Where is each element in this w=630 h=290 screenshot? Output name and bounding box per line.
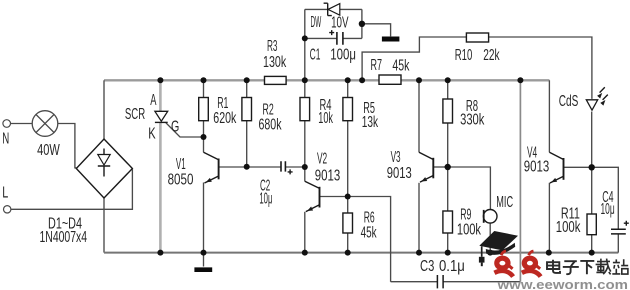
svg-text:R7: R7 xyxy=(371,57,383,74)
transistor V2 xyxy=(305,181,320,211)
wire R2 column xyxy=(246,80,248,167)
svg-text:620k: 620k xyxy=(213,110,236,127)
node top bus / R5 top xyxy=(345,77,351,83)
logo text dian xyxy=(547,260,560,273)
transistor V3 xyxy=(419,152,433,182)
lamp 40W xyxy=(32,111,58,137)
svg-text:40W: 40W xyxy=(37,142,60,159)
wire C3 rail riser to top bus xyxy=(519,80,521,281)
node top bus / V3 collector xyxy=(416,77,422,83)
svg-text:8050: 8050 xyxy=(168,171,194,188)
wire C4 bottom xyxy=(617,234,619,253)
wire C3 rail xyxy=(391,281,521,283)
svg-text:130k: 130k xyxy=(263,54,286,71)
wire R8 column xyxy=(447,80,449,167)
wire R10 to CdS xyxy=(489,37,592,99)
wire V3 collector column xyxy=(418,80,420,152)
wire SCR gate xyxy=(166,123,204,137)
wire SCR anode xyxy=(159,80,162,111)
node bottom bus / V1 emitter xyxy=(201,250,207,256)
wire node to C4 xyxy=(592,167,619,229)
node top bus / R1 top xyxy=(201,77,207,83)
node top bus / R4 top xyxy=(302,77,308,83)
transistor V1 xyxy=(204,152,219,183)
capacitor C4 xyxy=(611,221,629,234)
node top bus / SCR anode xyxy=(157,77,163,83)
node C1 left rail junction xyxy=(302,35,308,41)
logo chong glyph 2 xyxy=(522,251,541,277)
node bottom bus / R11 bottom xyxy=(589,250,595,256)
svg-text:13k: 13k xyxy=(362,114,378,131)
wire N terminal to lamp xyxy=(10,123,32,125)
photoresistor CdS xyxy=(586,87,608,110)
resistor R8 xyxy=(443,99,453,123)
node SCR gate / R1 bottom / V1 collector xyxy=(201,134,207,140)
svg-text:0.1μ: 0.1μ xyxy=(439,258,465,275)
svg-text:DW: DW xyxy=(311,14,322,31)
svg-text:N: N xyxy=(2,131,9,148)
node bottom bus / SCR cathode xyxy=(157,250,163,256)
node V2 base / R5 R6 xyxy=(345,194,351,200)
resistor R4 xyxy=(300,98,310,121)
wire lamp to bridge left corner xyxy=(58,124,77,168)
svg-text:R3: R3 xyxy=(267,38,278,55)
svg-text:1N4007x4: 1N4007x4 xyxy=(40,229,88,246)
node bottom bus / R9 bottom xyxy=(445,250,451,256)
svg-text:A: A xyxy=(150,92,157,109)
wire ground tap from C1 rail xyxy=(362,24,391,37)
node V1 base / R2 bottom xyxy=(244,164,250,170)
wire R11 column xyxy=(591,167,593,252)
svg-text:10μ: 10μ xyxy=(259,191,272,208)
logo graduation cap xyxy=(479,231,518,266)
node bottom bus / MIC bottom xyxy=(487,250,493,256)
svg-text:V2: V2 xyxy=(317,151,327,168)
wire bottom ground bus xyxy=(104,252,618,254)
wire node to MIC xyxy=(448,167,491,210)
wire R4 column xyxy=(304,80,306,167)
svg-text:G: G xyxy=(171,118,179,135)
logo chong glyph 1 xyxy=(494,251,513,277)
svg-text:45k: 45k xyxy=(392,57,409,74)
svg-text:10V: 10V xyxy=(331,15,349,32)
wire R9 column xyxy=(447,167,449,253)
svg-text:MIC: MIC xyxy=(496,194,513,211)
resistor R6 xyxy=(343,213,353,233)
wire R6 column xyxy=(347,197,349,253)
capacitor C2 xyxy=(281,161,293,174)
svg-text:22k: 22k xyxy=(483,47,499,64)
svg-text:9013: 9013 xyxy=(524,159,550,176)
svg-text:K: K xyxy=(148,126,156,143)
svg-text:www.eeworm.com: www.eeworm.com xyxy=(496,277,628,290)
terminal L xyxy=(3,206,10,213)
wire SCR cathode column xyxy=(159,123,162,253)
wire bridge bottom column xyxy=(103,198,105,253)
wire V3 emitter column xyxy=(418,183,420,253)
wire top supply bus xyxy=(104,79,549,81)
capacitor C3 xyxy=(437,275,443,288)
wire V1 emitter column xyxy=(203,183,205,253)
capacitor C1 xyxy=(329,30,343,45)
wire bridge top column xyxy=(103,80,105,139)
svg-text:330k: 330k xyxy=(460,111,484,128)
transistor V4 xyxy=(549,152,563,183)
ground near C1 xyxy=(382,37,400,42)
svg-text:CdS: CdS xyxy=(559,93,579,110)
node top bus / R10 branch xyxy=(359,77,365,83)
svg-text:9013: 9013 xyxy=(315,168,341,185)
node top bus / C3 riser top xyxy=(517,77,523,83)
zener DW xyxy=(324,3,340,15)
logo text zi xyxy=(563,261,579,274)
resistor R9 xyxy=(443,211,453,233)
wire staircase bus to R10 xyxy=(362,37,466,80)
wire C1 left rail xyxy=(304,38,306,80)
svg-text:C1: C1 xyxy=(310,46,321,63)
svg-text:45k: 45k xyxy=(361,224,377,241)
logo text xia xyxy=(580,261,594,274)
node V3 base / R8 R9 MIC xyxy=(445,164,451,170)
svg-text:L: L xyxy=(2,184,8,201)
logo text zhan xyxy=(612,259,628,274)
resistor R11 xyxy=(587,214,596,235)
node ground tap junction xyxy=(359,21,365,27)
wire DW C1 loop top xyxy=(305,9,362,38)
wire V4 base to CdS node xyxy=(564,166,592,168)
terminal N xyxy=(3,120,11,128)
node V2 collector / R4 bottom / C2 xyxy=(302,164,308,170)
svg-text:100k: 100k xyxy=(556,219,581,236)
wire R1 column xyxy=(203,80,205,137)
resistor R1 xyxy=(199,98,209,121)
resistor R3 xyxy=(265,76,287,84)
svg-text:C3: C3 xyxy=(420,258,434,275)
wire V1 base row with C2 xyxy=(219,166,305,168)
svg-text:9013: 9013 xyxy=(387,165,412,182)
microphone MIC xyxy=(483,210,497,224)
wire V2 base node to C3 rail xyxy=(348,197,391,282)
wire L terminal to bridge right corner xyxy=(11,169,132,209)
wire V4 collector xyxy=(548,80,550,152)
wire V2 emitter column xyxy=(304,212,306,253)
svg-text:V3: V3 xyxy=(391,149,401,166)
ground below V1 xyxy=(194,253,212,270)
logo text zai xyxy=(596,259,611,275)
svg-text:100k: 100k xyxy=(457,222,481,239)
node bottom bus / V3 emitter xyxy=(416,250,422,256)
svg-text:R10: R10 xyxy=(455,47,473,64)
node bottom bus / R6 bottom xyxy=(345,250,351,256)
svg-text:100μ: 100μ xyxy=(330,46,356,63)
wire MIC bottom column xyxy=(489,223,491,252)
wire V1 collector xyxy=(203,137,205,152)
svg-text:10μ: 10μ xyxy=(601,201,615,218)
wire V4 emitter column xyxy=(548,183,550,253)
wire V3 base to R8 R9 node xyxy=(433,166,447,168)
node top bus / R8 top xyxy=(445,77,451,83)
svg-text:SCR: SCR xyxy=(125,106,145,123)
node V4 base / CdS R11 C4 xyxy=(589,164,595,170)
wire CdS to V4 base node xyxy=(591,112,593,168)
bridge rectifier D1~D4 xyxy=(76,139,132,198)
node bottom bus / V4 emitter xyxy=(546,250,552,256)
resistor R10 xyxy=(466,33,488,42)
wire V2 collector xyxy=(304,167,306,181)
resistor R5 xyxy=(343,98,353,121)
SCR xyxy=(155,111,168,122)
node bottom bus / V2 emitter xyxy=(302,250,308,256)
resistor R7 xyxy=(379,75,401,84)
svg-text:680k: 680k xyxy=(259,116,282,133)
wire R5 column xyxy=(347,80,349,196)
resistor R2 xyxy=(242,98,252,121)
wire V2 base to R5 R6 node xyxy=(320,196,348,198)
node top bus / R2 top xyxy=(244,77,250,83)
svg-text:10k: 10k xyxy=(318,110,333,127)
